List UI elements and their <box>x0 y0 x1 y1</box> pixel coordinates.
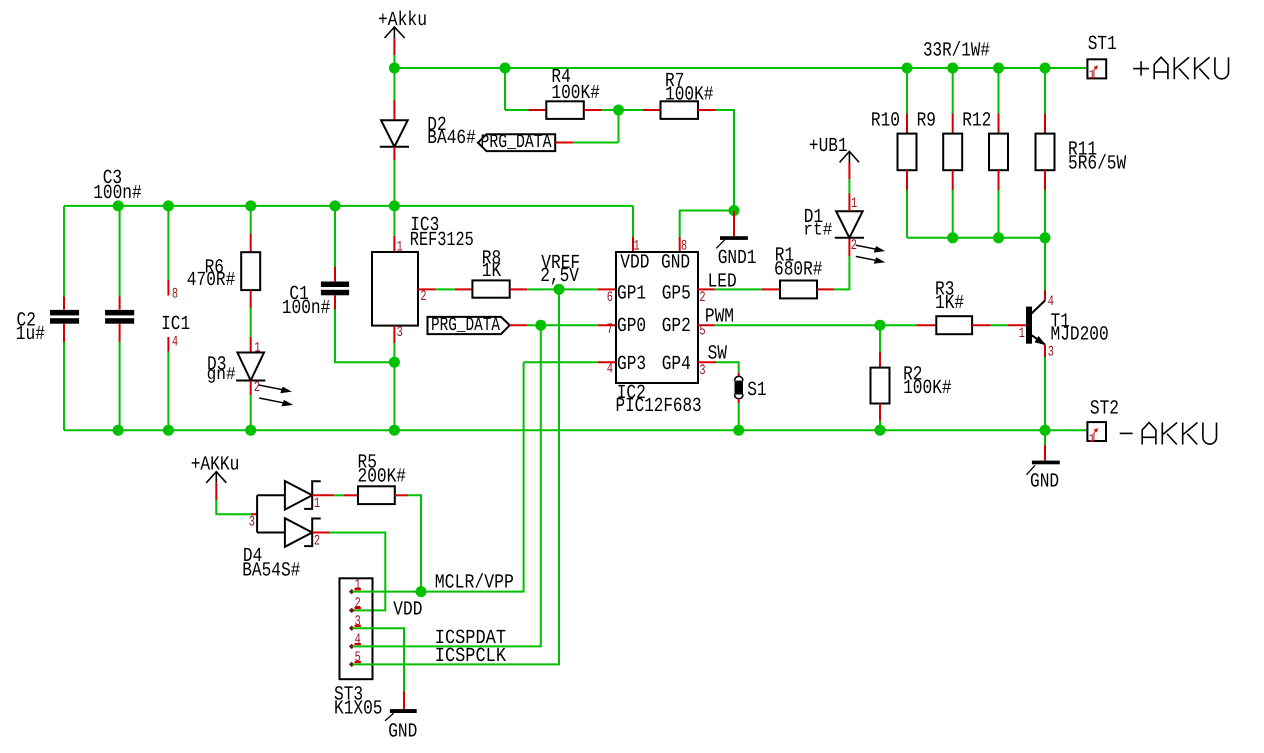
pin number 3 (T1 emitter) <box>1048 345 1054 361</box>
wire ST3 pin3 to GND <box>353 628 405 691</box>
label R11 <box>1068 138 1097 161</box>
value 200K# (R5) <box>358 466 407 489</box>
junction PWM/R2 node <box>875 320 886 331</box>
switch S1 <box>735 376 744 398</box>
diode D1 cathode pin <box>848 238 850 256</box>
IC2 pin 8 <box>679 237 681 252</box>
wire R5 to MCLR node <box>408 495 421 591</box>
label D3 <box>207 353 226 376</box>
label R12 <box>962 110 991 133</box>
svg-text:MJD200: MJD200 <box>1051 324 1109 347</box>
resistor R8 right pin <box>510 288 528 290</box>
resistor R10 top pin <box>906 114 908 134</box>
junction GND rail at R2 <box>875 425 886 436</box>
label IC2 <box>617 382 646 405</box>
wire IC1 pin8 drop <box>167 206 169 280</box>
svg-text:GP4: GP4 <box>662 353 691 376</box>
resistor R6 top pin <box>250 234 252 253</box>
junction VCC rail at IC1 <box>163 200 174 211</box>
svg-text:4: 4 <box>1048 294 1054 310</box>
junction VCC rail at IC3 <box>389 200 400 211</box>
wire IC1 pin4 to GND rail <box>167 352 169 431</box>
pin number 1 (IC3) <box>397 240 403 256</box>
wire T1 emitter to GND rail <box>1044 357 1046 430</box>
label R9 <box>917 110 936 133</box>
IC2 pin name GP1 <box>617 283 646 306</box>
svg-text:+Akku: +Akku <box>378 9 427 32</box>
svg-text:1: 1 <box>314 496 320 512</box>
value BA54S# (D4) <box>242 559 300 582</box>
wire R10 top drop <box>906 68 908 114</box>
wire D2 to VCC rail <box>393 160 395 206</box>
value BA46# (D2) <box>427 127 476 150</box>
wire D3 to GND rail <box>250 395 252 430</box>
svg-text:470R#: 470R# <box>187 269 236 292</box>
wire VCC rail (C3 rail) <box>64 205 633 207</box>
label ST2 <box>1090 398 1119 421</box>
connector ST3 <box>340 578 373 679</box>
svg-text:ST1: ST1 <box>1088 33 1117 56</box>
svg-text:4: 4 <box>172 334 178 350</box>
resistor R3 right pin <box>972 324 991 326</box>
resistor R8 <box>472 280 509 297</box>
wire GND rail <box>64 429 1087 431</box>
label IC3 <box>410 214 439 237</box>
transistor T1 base pin <box>1008 324 1026 326</box>
net name SW <box>708 342 727 365</box>
svg-text:GND: GND <box>1030 471 1059 494</box>
IC3 pin 3 <box>393 326 395 343</box>
label R2 <box>903 364 922 387</box>
svg-text:1: 1 <box>851 196 857 212</box>
label R5 <box>358 451 377 474</box>
pin number 2 (IC2 GP5) <box>699 290 705 306</box>
resistor R3 left pin <box>916 324 936 326</box>
IC2 pin 6 stub <box>598 288 616 290</box>
resistor R10 <box>898 134 917 171</box>
svg-text:8: 8 <box>172 287 178 303</box>
GND1 pin stub <box>733 211 735 237</box>
IC2 pin 1 <box>632 237 634 252</box>
capacitor C3 top pin <box>119 297 121 310</box>
wire MCLR riser to GP3 <box>524 361 598 363</box>
wire R7 to IC2 GND node <box>716 110 734 211</box>
label D4 <box>243 545 262 568</box>
svg-text:2: 2 <box>314 533 320 549</box>
svg-text:rt#: rt# <box>803 221 832 241</box>
transistor T1 <box>1026 301 1045 345</box>
resistor R11 top pin <box>1044 114 1046 134</box>
svg-text:100n#: 100n# <box>282 297 331 320</box>
wire C2 to GND rail <box>63 342 65 430</box>
label ST1 <box>1088 33 1117 56</box>
value 100n# (C1) <box>282 297 331 320</box>
svg-text:GP5: GP5 <box>662 283 691 306</box>
wire R8 to GP1 (VREF net) <box>527 288 598 290</box>
LED D3 <box>236 353 265 381</box>
diode D4a <box>285 481 321 510</box>
diode D2 <box>380 120 409 147</box>
junction top rail at R10 <box>902 63 913 74</box>
ST3 pin 4 mark <box>350 632 361 648</box>
resistor R2 bottom pin <box>879 404 881 421</box>
svg-text:3: 3 <box>1048 345 1054 361</box>
wire IC3 to R8 <box>436 288 455 290</box>
value rt# (D1) <box>803 221 832 241</box>
label R7 <box>665 70 684 93</box>
diode D4 pin 3 stub <box>251 513 257 515</box>
wire PWM to R2 <box>879 325 881 352</box>
svg-text:R12: R12 <box>962 110 991 133</box>
resistor R5 left pin <box>344 494 358 496</box>
supply +Akku (top) <box>378 9 427 56</box>
svg-text:GND1: GND1 <box>718 247 757 270</box>
ST2 pin 1 mark <box>1089 429 1098 446</box>
label GND (ST3) <box>388 720 417 743</box>
wire PRG_DATA to GP0 <box>527 324 598 326</box>
junction GND rail at IC1 <box>163 425 174 436</box>
diode D4b <box>285 518 321 547</box>
junction VREF node <box>554 284 565 295</box>
net name VREF <box>541 252 580 275</box>
svg-text:MCLR/VPP: MCLR/VPP <box>435 572 514 595</box>
diode D2 anode pin <box>393 100 395 120</box>
svg-text:100n#: 100n# <box>93 182 142 205</box>
resistor R12 top pin <box>998 114 1000 134</box>
svg-text:1: 1 <box>254 340 260 356</box>
junction bank rail at R12 <box>993 232 1004 243</box>
svg-text:ST2: ST2 <box>1090 398 1119 421</box>
label S1 <box>747 379 766 402</box>
junction VCC rail at R6 <box>245 200 256 211</box>
IC2 pin name GP2 <box>662 315 691 338</box>
svg-text:GND: GND <box>388 720 417 743</box>
IC2 pin 3 stub <box>698 361 716 363</box>
net label PRG_DATA (upper) <box>478 131 555 153</box>
resistor R4 left pin <box>529 109 547 111</box>
capacitor C1 plates <box>321 282 349 296</box>
resistor R6 bottom pin <box>250 290 252 308</box>
capacitor C2 top pin <box>63 297 65 310</box>
label IC1 <box>161 313 190 336</box>
wire ST3 pin4 ICSPDAT net <box>353 325 541 646</box>
net name ICSPDAT <box>435 627 506 650</box>
svg-text:BA54S#: BA54S# <box>242 559 300 582</box>
net name -AKKU (big) <box>1120 423 1217 445</box>
diode D3 anode pin <box>250 337 252 353</box>
ST3 pin 3 mark <box>350 614 361 630</box>
label R3 <box>935 279 954 302</box>
wire C2 top drop <box>63 206 65 297</box>
svg-text:3: 3 <box>249 514 255 530</box>
svg-text:K1X05: K1X05 <box>334 698 383 721</box>
svg-text:1K#: 1K# <box>935 292 964 315</box>
junction GND rail at D3 <box>245 425 256 436</box>
wire R11 top drop <box>1044 68 1046 114</box>
pin number 1 (D3) <box>254 340 260 356</box>
LED D3 arrows <box>258 385 292 406</box>
svg-text:1: 1 <box>397 240 403 256</box>
label R8 <box>482 248 501 271</box>
capacitor C1 top pin <box>334 267 336 281</box>
pin number 3 (D4) <box>249 514 255 530</box>
svg-text:IC1: IC1 <box>161 313 190 336</box>
junction top rail at R9 <box>947 63 958 74</box>
junction top rail at R12 <box>993 63 1004 74</box>
svg-text:680R#: 680R# <box>774 258 823 281</box>
pin number 7 (IC2 GP0) <box>607 322 613 338</box>
junction bank rail at R9 <box>947 232 958 243</box>
svg-text:2: 2 <box>254 380 260 396</box>
svg-text:4: 4 <box>607 362 613 378</box>
IC3 pin 2 <box>418 288 436 290</box>
wire D1 to +UB1 <box>848 179 850 193</box>
wire +AKKU net: +Akku stub to top rail <box>393 55 395 68</box>
svg-text:1u#: 1u# <box>16 323 45 346</box>
capacitor C1 bottom pin <box>334 295 336 309</box>
wire C3 top drop <box>119 206 121 297</box>
wire R12 bottom drop <box>998 190 1000 238</box>
junction R4/R7/PRG_DATA node <box>613 105 624 116</box>
value 100K# (R2) <box>903 377 952 400</box>
wire C1 top drop <box>334 206 336 267</box>
capacitor C2 bottom pin <box>63 324 65 342</box>
resistor R11 <box>1036 134 1055 171</box>
value 1u# (C2) <box>16 323 45 346</box>
svg-text:S1: S1 <box>747 379 766 402</box>
resistor R6 <box>241 252 260 290</box>
net name PWM <box>705 305 734 328</box>
ground GND (ST3) <box>385 709 417 721</box>
wire R4 to R7 <box>602 109 643 111</box>
ground GND (right) <box>1027 461 1060 475</box>
transistor T1 collector pin <box>1044 290 1046 301</box>
diode D2 cathode pin <box>393 147 395 160</box>
wire D4a to R5 <box>334 494 344 496</box>
value 100K# (R7) <box>665 83 714 106</box>
IC2 pin 7 stub <box>598 324 616 326</box>
value 680R# (R1) <box>774 258 823 281</box>
connector ST2 <box>1087 422 1106 441</box>
pin number 1 (D4a) <box>314 496 320 512</box>
wire bank rail to T1 collector <box>1044 238 1046 290</box>
junction MCLR/R5 node <box>416 586 427 597</box>
diode D3 cathode pin <box>250 381 252 396</box>
IC1 pin 4 <box>167 337 169 352</box>
svg-text:PIC12F683: PIC12F683 <box>616 395 702 418</box>
junction GND rail at S1 <box>733 425 744 436</box>
IC2 pin name GP0 <box>617 315 646 338</box>
label ST3 <box>334 684 363 707</box>
resistor R2 <box>871 368 890 404</box>
pin number 2 (D1) <box>851 238 857 254</box>
wire R9 bottom drop <box>952 190 954 238</box>
pin number 2 (IC3) <box>420 289 426 305</box>
IC2 pin name VDD <box>620 252 649 275</box>
diode D4a pin 1 <box>312 494 334 496</box>
svg-text:1K: 1K <box>482 260 501 283</box>
value MJD200 (T1) <box>1051 324 1109 347</box>
svg-text:100K#: 100K# <box>551 82 600 105</box>
wire top rail to D2 <box>393 68 395 100</box>
junction VCC rail at C1 <box>330 200 341 211</box>
value 5R6/5W (R11) <box>1068 153 1126 176</box>
svg-text:GP2: GP2 <box>662 315 691 338</box>
junction PRG_DATA/ICSPDAT node <box>535 320 546 331</box>
wire R10 bottom drop <box>906 190 908 238</box>
net name MCLR/VPP <box>435 572 514 595</box>
net label PRG_DATA lower pin stub <box>510 324 528 326</box>
resistor R11 bottom pin <box>1044 170 1046 190</box>
value REF3125 (IC3) <box>410 229 474 252</box>
junction IC3 pin3 / C1 node <box>389 357 400 368</box>
svg-text:PRG_DATA: PRG_DATA <box>431 314 500 336</box>
label R6 <box>205 256 224 279</box>
svg-text:33R/1W#: 33R/1W# <box>923 40 990 63</box>
transistor T1 emitter pin <box>1044 345 1046 358</box>
svg-text:100K#: 100K# <box>903 377 952 400</box>
wire R1 to D1 <box>834 256 849 289</box>
label R10 <box>871 110 900 133</box>
pin number 3 (IC3) <box>397 325 403 341</box>
svg-text:2: 2 <box>355 596 361 612</box>
supply +UB1 <box>809 135 859 179</box>
ground GND1 <box>716 236 748 248</box>
svg-text:3: 3 <box>397 325 403 341</box>
svg-text:100K#: 100K# <box>665 83 714 106</box>
resistor R3 <box>936 316 972 334</box>
junction GND1 node <box>729 205 740 216</box>
wire PRG_DATA riser <box>573 110 619 143</box>
svg-text:2: 2 <box>851 238 857 254</box>
IC2 pin 5 stub <box>698 324 715 326</box>
pin number 2 (D3) <box>254 380 260 396</box>
resistor R9 top pin <box>952 114 954 134</box>
capacitor C2 <box>50 310 79 324</box>
svg-text:VDD: VDD <box>620 252 649 275</box>
ST1 pin 1 mark <box>1089 66 1098 82</box>
resistor R2 top pin <box>879 352 881 368</box>
svg-text:2: 2 <box>699 290 705 306</box>
junction top rail at R4 drop <box>500 63 511 74</box>
wire +AKKU net: top rail <box>394 67 1087 69</box>
IC3 pin 1 <box>393 236 395 252</box>
svg-text:2: 2 <box>420 289 426 305</box>
microcontroller IC2 <box>616 252 698 383</box>
svg-text:gn#: gn# <box>207 365 236 385</box>
wire PWM net <box>715 324 917 326</box>
svg-text:R9: R9 <box>917 110 936 133</box>
net name VDD (ST3) <box>393 598 422 621</box>
label GND (right) <box>1030 471 1059 494</box>
IC2 pin 4 stub <box>598 361 616 363</box>
junction top rail at D2 <box>389 63 400 74</box>
ST3 pin 1 mark <box>350 577 361 593</box>
capacitor C3 plates <box>105 310 134 324</box>
wire R12 top drop <box>998 68 1000 114</box>
svg-text:6: 6 <box>607 290 613 306</box>
pin number 4 (T1 collector) <box>1048 294 1054 310</box>
svg-text:BA46#: BA46# <box>427 127 476 150</box>
net label PRG_DATA (lower) <box>428 314 510 336</box>
svg-text:PRG_DATA: PRG_DATA <box>481 131 552 153</box>
net label PRG_DATA pin stub <box>555 142 573 144</box>
label D2 <box>427 114 446 137</box>
switch S1 top pin <box>738 372 740 376</box>
label D1 <box>804 206 823 229</box>
value 1K (R8) <box>482 260 501 283</box>
net name 2,5V <box>540 265 579 288</box>
pin number 2 (D4b) <box>314 533 320 549</box>
svg-text:1: 1 <box>1019 326 1025 342</box>
label GND1 <box>718 247 757 270</box>
wire ST3 pin1 MCLR net <box>353 362 524 591</box>
pin number 8 (IC1) <box>172 287 178 303</box>
wire +AKKu to D4 anode <box>216 500 251 514</box>
IC2 pin name GND <box>661 252 690 275</box>
svg-text:1: 1 <box>1089 68 1095 82</box>
label T1 <box>1051 311 1070 334</box>
IC2 pin name GP5 <box>662 283 691 306</box>
wire R4 drop <box>505 68 529 110</box>
resistor R10 bottom pin <box>906 170 908 190</box>
wire R6 to D3 <box>250 308 252 337</box>
pin number 1 (IC2 VDD) <box>634 239 640 255</box>
label C3 <box>103 167 122 190</box>
junction GND rail at IC3 <box>389 425 400 436</box>
diode D4b pin 2 <box>312 532 329 534</box>
resistor R5 <box>358 486 395 504</box>
resistor R12 <box>989 134 1008 171</box>
pin number 4 (IC2 GP3) <box>607 362 613 378</box>
LED D1 arrows <box>856 245 884 263</box>
pin number 3 (IC2 GP4) <box>699 363 705 379</box>
junction VCC rail at C3 <box>113 200 124 211</box>
connector ST1 <box>1087 59 1106 78</box>
ST3 pin 5 mark <box>350 650 361 666</box>
pin number 6 (IC2 GP1) <box>607 290 613 306</box>
wire R9 top drop <box>952 68 954 114</box>
value 100n# (C3) <box>93 182 142 205</box>
svg-text:7: 7 <box>607 322 613 338</box>
IC1 pin 8 <box>167 280 169 296</box>
value 470R# (R6) <box>187 269 236 292</box>
switch S1 bottom pin <box>738 399 740 403</box>
svg-text:GP0: GP0 <box>617 315 646 338</box>
pin number 5 (IC2 GP2) <box>699 323 705 339</box>
resistor R8 left pin <box>455 288 473 290</box>
GND pin stub (right) <box>1044 445 1046 461</box>
junction top rail at R11 <box>1040 63 1051 74</box>
svg-text:2,5V: 2,5V <box>540 265 579 288</box>
wire GP5 to R1 <box>715 288 762 290</box>
wire C3 to GND rail <box>119 342 121 430</box>
svg-text:1: 1 <box>1089 432 1095 446</box>
resistor R4 <box>546 101 584 119</box>
resistor R7 right pin <box>698 109 716 111</box>
svg-text:VDD: VDD <box>393 598 422 621</box>
junction GND rail at T1 <box>1040 425 1051 436</box>
wire ST3 pin5 ICSPCLK net <box>353 289 560 664</box>
wire D4b to ST3 pin2 (VDD net) <box>330 533 386 611</box>
value K1X05 (ST3) <box>334 698 383 721</box>
svg-text:GND: GND <box>661 252 690 275</box>
wire R2 to GND rail <box>879 421 881 430</box>
diode D1 anode pin <box>848 193 850 211</box>
label R4 <box>551 66 570 89</box>
wire IC3 pin3 down <box>393 343 395 430</box>
wire GND symbol stub <box>1044 430 1046 445</box>
